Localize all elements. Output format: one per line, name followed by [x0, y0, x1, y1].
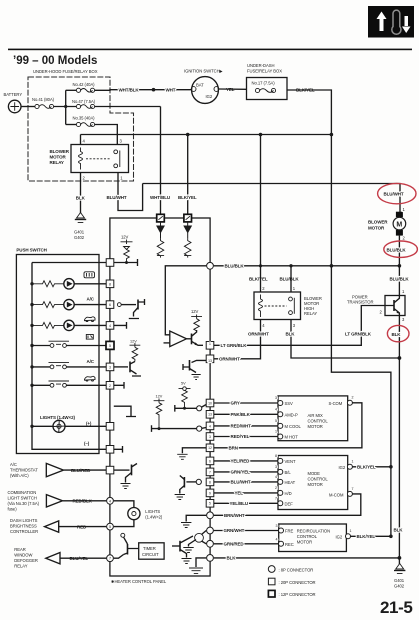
wire PNK/BLK row — [214, 413, 278, 415]
svg-text:RELAY: RELAY — [304, 311, 317, 316]
resistor R2 — [184, 239, 191, 258]
mode pin HEAT — [275, 475, 296, 485]
push switch box — [16, 255, 99, 454]
svg-text:1: 1 — [293, 286, 296, 291]
junction lamp row 3 — [30, 324, 33, 327]
svg-text:1: 1 — [403, 207, 406, 212]
junction IG2 mode — [389, 465, 393, 469]
svg-text:DEF: DEF — [285, 501, 294, 506]
12V supply (op-amp) — [191, 309, 202, 331]
diode D2 — [184, 222, 191, 239]
svg-text:3: 3 — [120, 139, 123, 144]
heater control panel box — [110, 218, 210, 576]
recirculation icon — [85, 317, 96, 322]
wire BLK from power transistor down — [398, 316, 400, 560]
panel internal: BRN/WHT ground — [181, 515, 206, 527]
connector pin LT GRN/BLK — [206, 342, 214, 350]
defrost icon — [84, 272, 95, 278]
svg-text:8: 8 — [109, 282, 111, 286]
svg-text:7: 7 — [209, 470, 211, 474]
panel internal: transistor Q4 — [114, 362, 141, 377]
connector pin BLU/WHT mode — [206, 478, 214, 486]
wire relay pin4 to ig bus — [80, 135, 82, 145]
svg-text:: 8P CONNECTOR: : 8P CONNECTOR — [279, 567, 314, 572]
wire BLU/RED to pin — [68, 469, 106, 471]
legend 12P connector — [268, 590, 315, 597]
connector pin RED/YEL — [206, 433, 214, 441]
wire lamp1 to pin — [74, 283, 106, 285]
svg-text:4: 4 — [275, 475, 277, 479]
combination light switch arrow — [46, 495, 67, 507]
connector pin YEL mode — [206, 489, 214, 497]
svg-text:PNK/BLK: PNK/BLK — [231, 412, 251, 417]
air mix control motor box — [278, 396, 348, 441]
svg-text:: 12P CONNECTOR: : 12P CONNECTOR — [279, 592, 316, 597]
mode pin DEF — [275, 496, 293, 506]
panel internal: stub row 325.4 — [114, 322, 127, 329]
panel internal: BRN ground — [177, 448, 206, 460]
svg-text:YEL/BLU: YEL/BLU — [230, 501, 249, 506]
svg-text:5: 5 — [275, 419, 277, 423]
svg-text:MODE: MODE — [308, 471, 321, 476]
svg-text:5V: 5V — [181, 382, 186, 386]
junction bus at high relay drop — [259, 133, 263, 137]
ignition switch SW — [191, 77, 219, 104]
svg-text:13: 13 — [208, 359, 212, 363]
panel internal: transistor Q6 (defogger timer input) — [114, 533, 139, 558]
push switch common bus — [32, 263, 106, 450]
connector pin BLU/YEL (8P) — [107, 555, 114, 562]
svg-text:S-COM: S-COM — [329, 401, 343, 406]
connector pin switch2 — [106, 363, 114, 371]
svg-text:5: 5 — [109, 525, 111, 529]
svg-text:H/D: H/D — [285, 491, 292, 496]
wire RED/WHT row — [214, 425, 278, 427]
diode D1 — [157, 222, 164, 239]
svg-text:BLOWER: BLOWER — [50, 149, 70, 154]
air mix pin S-COM — [329, 396, 354, 406]
svg-text:3: 3 — [275, 465, 277, 469]
timer circuit box — [139, 543, 164, 559]
wire 12V row to terminal — [114, 259, 138, 266]
fuse No 35 (40A) — [66, 116, 95, 127]
svg-text:4: 4 — [275, 407, 277, 411]
svg-text:6: 6 — [209, 459, 211, 463]
svg-text:1: 1 — [350, 529, 352, 533]
connector pin RED (8P) — [107, 523, 114, 530]
svg-text:FUSE/RELAY BOX: FUSE/RELAY BOX — [247, 69, 282, 74]
transistor Q10 (ORN/WHT driver) — [183, 360, 206, 380]
svg-text:3: 3 — [209, 435, 211, 439]
svg-text:2: 2 — [403, 236, 406, 241]
mode pin H/D — [275, 486, 292, 496]
svg-text:A/C: A/C — [87, 359, 95, 364]
relay coil — [79, 148, 83, 170]
recirc pin REC — [276, 537, 294, 547]
svg-text:MOTOR: MOTOR — [308, 424, 323, 429]
junction IG2 recirc — [389, 535, 393, 539]
wire WHT/BLU drop to heater panel — [160, 107, 162, 215]
svg-text:2: 2 — [109, 384, 111, 388]
svg-text:WHT/BLK: WHT/BLK — [119, 88, 140, 93]
svg-text:BLK: BLK — [394, 528, 404, 533]
feedback wire from BLU/BLK pin to op-amp — [165, 266, 206, 335]
vent mode icon — [86, 335, 93, 340]
svg-text:TRANSISTOR: TRANSISTOR — [347, 300, 373, 305]
blower motor high relay box — [254, 292, 301, 320]
svg-text:BLU/WHT: BLU/WHT — [384, 192, 404, 197]
junction lights row — [30, 425, 33, 428]
panel internal: 5V sense wire — [175, 405, 206, 412]
svg-text:2: 2 — [380, 309, 383, 314]
connector pin BLU/RED — [106, 466, 114, 474]
svg-text:GRY: GRY — [231, 401, 240, 406]
svg-text:(With A/C): (With A/C) — [10, 473, 29, 478]
wire BLK/YEL from under-dash down right side — [287, 90, 391, 536]
wire RED/BLK to pin — [67, 500, 106, 502]
red circle BLK — [387, 325, 409, 341]
junction lamp row 2 — [30, 303, 33, 306]
svg-text:2: 2 — [83, 176, 86, 181]
panel internal: 12V supply with resistor R8 — [154, 395, 165, 429]
wire BLU/WHT row — [214, 481, 278, 483]
svg-text:FRE: FRE — [285, 529, 293, 534]
svg-text:’99 – 00 Models: ’99 – 00 Models — [13, 55, 97, 67]
svg-text:GRN/RED: GRN/RED — [224, 542, 245, 547]
svg-text:✱HEATER CONTROL PANEL: ✱HEATER CONTROL PANEL — [111, 579, 167, 584]
junction BLU/BLK at motor drop — [398, 264, 402, 268]
svg-text:A/C: A/C — [10, 462, 17, 467]
wire YEL/BLU row — [214, 502, 278, 504]
svg-text:CONTROL: CONTROL — [297, 534, 318, 539]
svg-text:(+): (+) — [86, 421, 92, 426]
indicator lamp L2 — [64, 299, 74, 309]
svg-text:7: 7 — [109, 557, 111, 561]
battery B1 — [8, 100, 21, 113]
svg-text:BLK: BLK — [286, 332, 296, 337]
svg-text:A/C: A/C — [87, 297, 95, 302]
connector pin YEL/RED — [206, 457, 214, 465]
svg-text:: 20P CONNECTOR: : 20P CONNECTOR — [279, 580, 316, 585]
connector pin 12V row — [106, 259, 114, 267]
connector pin ORN/WHT — [206, 355, 214, 363]
wire RED/YEL row — [214, 436, 278, 438]
svg-text:3: 3 — [276, 524, 278, 528]
svg-text:8: 8 — [209, 480, 211, 484]
svg-text:4: 4 — [209, 424, 211, 428]
connector pin (12P) switch1 — [106, 341, 114, 349]
connector pin lights+ — [106, 423, 114, 431]
blower motor relay box — [71, 145, 129, 173]
wire GRN/YEL row — [214, 471, 278, 473]
svg-text:(Via No.30 (7.5A): (Via No.30 (7.5A) — [8, 501, 40, 506]
connector pin (12P) BLK/YEL input — [184, 214, 192, 222]
svg-text:BLOWER: BLOWER — [368, 220, 388, 225]
junction 12V tap — [125, 261, 128, 264]
junction WHT/BLK node — [152, 88, 156, 92]
resistor R1 — [157, 239, 164, 258]
fuse No 41 (80A) — [32, 97, 55, 109]
svg-text:BRIGHTNESS: BRIGHTNESS — [10, 524, 37, 529]
high relay contact — [265, 297, 295, 314]
svg-text:3: 3 — [275, 396, 277, 400]
junction battery feed — [64, 105, 67, 108]
svg-text:12V: 12V — [156, 395, 163, 399]
svg-text:4: 4 — [262, 323, 265, 328]
wire M-COM to BRN/WHT row — [214, 494, 361, 515]
recirculation control motor box — [279, 524, 347, 552]
red circle BLU/BLK — [384, 241, 418, 257]
air mix pin M COOL — [275, 419, 301, 429]
svg-text:BLK: BLK — [392, 332, 402, 337]
svg-text:12V: 12V — [191, 309, 199, 314]
connector pin PNK/BLK — [206, 411, 214, 419]
svg-text:RED/WHT: RED/WHT — [231, 424, 252, 429]
panel internal: transistor Q7 — [172, 536, 193, 564]
svg-text:No.35 (40A): No.35 (40A) — [73, 116, 96, 121]
svg-text:UNDER-HOOD FUSE/RELAY BOX: UNDER-HOOD FUSE/RELAY BOX — [33, 69, 98, 74]
junction bus at BLK/YEL drop — [186, 133, 190, 137]
svg-text:BRN: BRN — [229, 446, 238, 451]
wire BLK ground row — [214, 557, 400, 559]
junction switch row 1 — [30, 344, 33, 347]
svg-text:No.47 (7.5A): No.47 (7.5A) — [72, 99, 96, 104]
wire BLU/BLK to power transistor — [398, 266, 400, 296]
svg-text:YEL/RED: YEL/RED — [231, 459, 251, 464]
svg-text:7: 7 — [352, 487, 354, 491]
svg-text:4: 4 — [83, 139, 86, 144]
wire ignition IG2 to under-dash box — [219, 88, 247, 90]
transistor Q1 (fan control driver) — [192, 330, 204, 346]
svg-text:BLK/YEL: BLK/YEL — [357, 465, 376, 470]
air mix pin M HOT — [275, 430, 298, 440]
junction BLK into transistor BLK vertical — [398, 356, 402, 360]
wire YEL row — [214, 492, 278, 494]
svg-text:3: 3 — [293, 323, 296, 328]
wire fuse 41 to branch node — [54, 106, 77, 108]
wire fuse35 to relay pin 3 — [95, 125, 118, 145]
junction switch row 3 — [30, 384, 33, 387]
panel internal: stub row 449.3 — [114, 446, 123, 453]
mode control motor box — [278, 456, 348, 510]
wire GRN/RED row — [214, 543, 279, 545]
svg-text:MOTOR: MOTOR — [368, 226, 385, 231]
wire motor to BLU/BLK junction — [398, 236, 400, 266]
svg-text:12: 12 — [208, 446, 212, 450]
temperature control key icon — [368, 6, 414, 38]
panel internal: L wire row 406 — [114, 406, 136, 416]
svg-text:12V: 12V — [121, 234, 129, 239]
svg-text:4: 4 — [109, 499, 111, 503]
svg-text:BLK: BLK — [76, 196, 86, 201]
pin digits (right edge) — [208, 342, 212, 506]
svg-text:REAR: REAR — [14, 547, 25, 552]
svg-text:No.42 (40A): No.42 (40A) — [73, 82, 96, 87]
svg-text:3: 3 — [402, 317, 405, 322]
svg-text:RECIRCULATION: RECIRCULATION — [297, 529, 330, 534]
panel internal: transistor Q9 (recirc drive) — [183, 531, 206, 553]
ground G401 G402 (left) — [75, 213, 86, 223]
junction switch row 2 — [30, 365, 33, 368]
wire WHT/BLK fuse42 to ignition switch — [95, 89, 192, 92]
junction BLU/BLK corner pin1 — [289, 264, 292, 267]
recirculation icon 2 — [85, 376, 96, 381]
svg-text:YEL: YEL — [235, 491, 244, 496]
svg-text:BATTERY: BATTERY — [4, 92, 23, 97]
svg-text:M-COM: M-COM — [329, 492, 344, 497]
resistor R4 — [32, 302, 64, 308]
junction bus at BLK/YEL main — [330, 133, 334, 137]
svg-text:RELAY: RELAY — [14, 564, 27, 569]
svg-text:LIGHT SWITCH: LIGHT SWITCH — [8, 496, 37, 501]
wire lamp3 to pin — [74, 324, 106, 326]
blower motor M1 — [393, 212, 406, 236]
wire IG2 recirc to BLK/YEL — [351, 535, 391, 537]
svg-text:CIRCUIT: CIRCUIT — [142, 552, 159, 557]
svg-text:BLU/BLK: BLU/BLK — [390, 276, 410, 281]
under-dash fuse/relay box — [247, 78, 288, 100]
wire relay pin2 BLK to ground — [80, 173, 82, 214]
svg-text:DASH LIGHTS: DASH LIGHTS — [10, 518, 38, 523]
svg-text:13: 13 — [208, 413, 212, 417]
red circle BLU/WHT — [378, 183, 416, 203]
connector pin BLU/BLK (8P) — [207, 262, 214, 269]
svg-text:CONTROLLER: CONTROLLER — [10, 529, 38, 534]
svg-text:No.41 (80A): No.41 (80A) — [32, 97, 55, 102]
branch bus node vertical — [65, 90, 67, 124]
svg-text:1: 1 — [120, 176, 123, 181]
connector pin YEL/BLU — [206, 500, 214, 508]
mode pin IG2 — [339, 460, 354, 470]
svg-text:THERMOSTAT: THERMOSTAT — [10, 468, 38, 473]
connector pin GRN/WHT (8P) — [207, 527, 214, 534]
panel internal: 5V supply with resistor R7 — [179, 382, 191, 409]
relay contact — [86, 150, 120, 168]
indicator lamp L3 — [64, 320, 74, 330]
svg-text:IG2: IG2 — [336, 534, 343, 539]
legend 8P connector — [268, 566, 313, 573]
connector pin GRN/RED (8P) — [207, 540, 214, 547]
push switch S1 — [32, 341, 106, 347]
wire LT GRN/BLK to power transistor base — [214, 306, 385, 346]
air mix pin AMD-P — [275, 407, 298, 417]
svg-text:IGNITION SWITCH▶: IGNITION SWITCH▶ — [184, 69, 224, 74]
connector pin lamp2 — [106, 301, 114, 309]
svg-text:5: 5 — [209, 502, 211, 506]
svg-text:RELAY: RELAY — [50, 160, 64, 165]
svg-text:M COOL: M COOL — [285, 424, 302, 429]
svg-text:BAT: BAT — [196, 83, 204, 88]
fuse No 17 (7.5A) — [252, 81, 276, 93]
wire relay pin1 BLU/WHT — [118, 173, 143, 211]
svg-text:TIMER: TIMER — [143, 546, 156, 551]
wire op-amp output — [187, 338, 192, 340]
panel internal: transistor Q3 — [117, 299, 144, 319]
svg-text:CONTROL: CONTROL — [308, 419, 329, 424]
svg-text:IG2: IG2 — [339, 465, 346, 470]
panel internal: stub row 385.3 — [114, 382, 124, 389]
svg-text:LT GRN/BLK: LT GRN/BLK — [345, 331, 372, 336]
svg-text:(1.4W×2): (1.4W×2) — [145, 515, 163, 520]
svg-text:AIR MIX: AIR MIX — [308, 413, 323, 418]
junction BLU/BLK x BLK/YEL drop — [259, 264, 262, 267]
op-amp input stub — [164, 342, 170, 344]
svg-text:3: 3 — [109, 365, 111, 369]
svg-text:RED/YEL: RED/YEL — [231, 434, 250, 439]
svg-text:WHT: WHT — [166, 88, 176, 93]
svg-text:No.17 (7.5A): No.17 (7.5A) — [252, 81, 276, 86]
resistor R5 — [32, 322, 64, 328]
connector pin RED/WHT — [206, 422, 214, 430]
wire YEL/RED row — [214, 460, 278, 462]
svg-text:MOTOR: MOTOR — [297, 540, 312, 545]
svg-text:(–): (–) — [84, 441, 90, 446]
wire BRN row to S-COM — [214, 403, 362, 448]
svg-text:VENT: VENT — [285, 459, 296, 464]
svg-text:BLK/YEL: BLK/YEL — [357, 534, 376, 539]
svg-text:BLU/WHT: BLU/WHT — [231, 480, 251, 485]
wire battery to fuse 41 — [21, 106, 35, 108]
wire IG2 mode to BLK/YEL — [352, 466, 391, 468]
svg-text:BLU/BLK: BLU/BLK — [280, 276, 300, 281]
svg-text:21-5: 21-5 — [380, 598, 412, 617]
svg-text:LT GRN/BLK: LT GRN/BLK — [221, 343, 248, 348]
svg-text:G402: G402 — [74, 235, 85, 240]
wire ORN/WHT pin4 to panel — [214, 320, 261, 359]
svg-text:5: 5 — [109, 344, 111, 348]
12V supply (panel left) — [121, 234, 133, 262]
high relay coil — [259, 295, 263, 318]
legend 20P connector — [268, 578, 315, 585]
connector pin GRN/YEL — [206, 468, 214, 476]
svg-text:AMD-P: AMD-P — [285, 412, 298, 417]
svg-text:9: 9 — [209, 491, 211, 495]
connector pin switch3 — [106, 382, 114, 390]
connector pin lamp3 — [106, 322, 114, 330]
svg-text:6: 6 — [109, 303, 111, 307]
svg-text:BLK: BLK — [227, 556, 237, 561]
panel internal: 12V supply with resistor R6 — [130, 339, 141, 361]
svg-text:GRN/YEL: GRN/YEL — [231, 470, 251, 475]
mode pin B/L — [275, 465, 291, 475]
connector pin lights- — [106, 446, 114, 454]
svg-text:BLK/YEL: BLK/YEL — [178, 195, 197, 200]
svg-text:HEAT: HEAT — [285, 480, 296, 485]
connector pin BRN/WHT (8P) — [207, 512, 214, 519]
svg-text:1: 1 — [352, 460, 354, 464]
svg-text:12V: 12V — [130, 339, 137, 343]
svg-text:1: 1 — [209, 342, 211, 346]
op-amp U1 — [170, 331, 187, 347]
wire GRN/WHT row — [214, 530, 279, 532]
svg-text:8: 8 — [275, 454, 277, 458]
svg-text:BLU/BLK: BLU/BLK — [225, 264, 245, 269]
fuse No 47 (7.5A) — [72, 99, 96, 109]
svg-text:ORN/WHT: ORN/WHT — [248, 332, 269, 337]
svg-text:BLK/YEL: BLK/YEL — [249, 276, 268, 281]
ground G401 G402 (right) — [394, 558, 405, 574]
svg-text:1: 1 — [275, 430, 277, 434]
pin digits (left edge) — [109, 282, 111, 560]
connector pin lamp1 — [106, 280, 114, 288]
connector pin (12P) WHT/BLU input — [157, 214, 165, 222]
recirc pin FRE — [276, 524, 294, 534]
svg-text:1: 1 — [402, 289, 405, 294]
illumination lamp LIGHTS — [32, 420, 106, 432]
air mix pin SSV — [275, 396, 293, 406]
BLU/WHT feed wire to blower motor — [143, 184, 400, 215]
wire fuse47 to WHT/BLU drop — [95, 106, 161, 108]
